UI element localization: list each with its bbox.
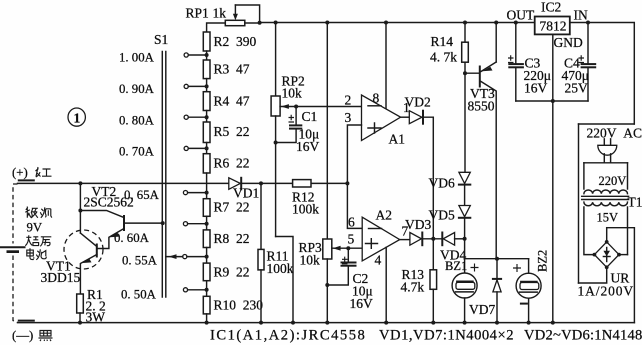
svg-text:BZ1: BZ1 [445,259,467,273]
wire VD5 to summing node and down to BZ1 [464,218,466,273]
wire A1 output pin1 [401,116,410,118]
transistor VT3 8550 [468,23,497,259]
svg-text:S1: S1 [154,32,168,47]
resistor R12 100k on main bus [292,180,319,217]
wire ladder R8-R9 [206,248,208,264]
svg-text:R3 47: R3 47 [214,62,250,77]
svg-text:8550: 8550 [468,99,495,114]
wire ladder R3-R4 [206,79,208,92]
wire R14 to VT3 base [465,72,480,74]
svg-text:3: 3 [345,110,352,125]
resistor R7 22 [203,199,249,217]
svg-text:VD1,VD7:1N4004×2: VD1,VD7:1N4004×2 [379,328,514,344]
transformer T1 [582,174,642,225]
wire IC2 GND pin down [552,34,554,101]
svg-text:GND: GND [554,35,583,50]
svg-text:4. 7k: 4. 7k [430,50,457,65]
svg-text:3DD15: 3DD15 [41,270,81,285]
S1 contact 0.80A [119,114,209,128]
diode VD5 (pointing down) [429,206,471,223]
node junction main bus / pin3 / pin6 [345,181,349,185]
capacitor C3 220u 16V [508,23,551,102]
wire secondary right down [627,207,629,255]
ground bus wire [18,322,635,324]
battery cell under test (dashed external leads) [1,184,25,322]
wire ladder R4-R5 [206,111,208,123]
svg-text:220V AC: 220V AC [587,126,642,141]
op-amp A2 [348,208,409,268]
resistor R13 4.7k [401,239,437,323]
svg-text:0. 90A: 0. 90A [119,82,155,96]
svg-text:1k: 1k [213,6,227,21]
resistor R8 22 [203,230,249,248]
svg-text:4.7k: 4.7k [401,280,425,295]
diode VD7 (pointing up) [469,259,501,323]
wire RP2 bottom jog to ground [276,237,293,323]
potentiometer RP3 10k [299,239,363,323]
svg-text:0. 80A: 0. 80A [119,114,155,128]
svg-text:10k: 10k [300,253,321,268]
resistor R4 47 [203,92,249,111]
svg-text:6: 6 [348,214,355,229]
capacitor C2 10u 16V [325,246,373,311]
resistor R1 2.2 3W [77,287,106,325]
svg-text:9V: 9V [27,221,43,235]
svg-text:VD2~VD6:1N4148×5: VD2~VD6:1N4148×5 [524,328,642,344]
wire mains primary feed [584,162,628,164]
S1 contact 0.50A [121,288,209,302]
svg-text:VD2: VD2 [405,95,431,110]
svg-text:BZ2: BZ2 [536,250,550,272]
node dot R11 tap on main bus [259,181,263,185]
svg-text:IC1(A1,A2):JRC4558: IC1(A1,A2):JRC4558 [210,328,366,344]
top +12V bus wire [260,22,535,24]
svg-text:R4 47: R4 47 [214,94,250,109]
S1 contact 0.60A [114,222,209,245]
resistor R2 390 [203,32,256,51]
svg-text:16V: 16V [350,296,374,311]
svg-text:RP1: RP1 [186,6,209,21]
wire ladder R6-R7 crossing main bus [206,173,208,199]
resistor R5 22 [203,122,249,143]
capacitor C1 10u 16V [274,105,320,155]
bei ce 9V ji ceng dian chi (battery under test) text column [25,207,52,260]
svg-text:5: 5 [348,231,355,246]
svg-text:0. 70A: 0. 70A [119,145,155,159]
node dots on top bus [258,21,262,25]
svg-text:8: 8 [373,91,380,106]
S1 contact 0.65A [124,188,209,202]
voltage regulator IC2 7812 [507,0,588,50]
buzzer + rail wire [465,258,529,260]
bridge rectifier UR [578,240,635,299]
label (+) red lead [12,166,28,180]
svg-text:2SC2562: 2SC2562 [84,195,134,210]
buzzer BZ2 [513,250,550,323]
wire GND junction down to ground bus [552,101,554,323]
svg-text:R9 22: R9 22 [214,265,250,280]
svg-text:15V: 15V [597,211,619,225]
svg-text:10k: 10k [282,86,303,101]
wire + bus down to VT1/VT2 [79,183,81,233]
main battery + bus wire [18,182,348,184]
wire A1 pin3 to main bus junction [347,125,361,183]
divider chain wire from top bus down to RP3 [326,23,328,240]
connector tick top lead [19,179,34,181]
wire A2 pin4 to ground bus [385,247,387,322]
svg-text:VD7: VD7 [469,302,495,317]
diode VD2 [405,95,431,124]
wire A1 pin8 from top bus [385,23,387,109]
connector tick bottom lead [19,320,34,322]
wire ladder R5-R6 [206,143,208,154]
svg-text:100k: 100k [267,261,294,276]
svg-text:A2: A2 [376,208,393,223]
potentiometer RP1 1k [186,5,260,32]
resistor R9 22 [203,263,249,281]
buzzer BZ1 [445,259,479,323]
S1 selected contact 0.55A with wiper arrow [122,254,209,268]
wire secondary left to bridge [584,207,595,255]
wire ladder R7-R8 [206,216,208,230]
svg-text:R6 22: R6 22 [214,156,250,171]
svg-text:T1: T1 [628,195,642,210]
svg-text:R8 22: R8 22 [214,231,250,246]
circled figure number 1 [68,108,85,126]
svg-text:(—): (—) [12,329,33,343]
svg-text:1A/200V: 1A/200V [578,284,635,299]
wire VD6/VD5 chain vertical [464,73,466,172]
svg-text:IN: IN [574,8,588,23]
svg-text:1: 1 [74,111,81,126]
svg-text:2: 2 [345,93,352,108]
svg-text:4: 4 [375,253,382,268]
svg-text:IC2: IC2 [541,0,561,15]
svg-text:VD1: VD1 [233,186,259,201]
potentiometer RP2 10k [271,23,361,237]
svg-text:(+): (+) [12,166,28,180]
svg-text:0. 55A: 0. 55A [122,254,158,268]
svg-text:0. 50A: 0. 50A [121,288,157,302]
resistor R6 22 [203,154,249,173]
svg-text:16V: 16V [296,139,320,154]
wire VD3 to summing node [422,238,442,240]
hei (black) character [39,331,53,342]
label (-) black lead [12,329,33,343]
wire VD6 to VD5 [464,185,466,206]
S1 contact 0.90A [119,82,209,96]
svg-text:R2 390: R2 390 [214,34,257,49]
svg-text:0. 60A: 0. 60A [114,231,150,245]
transistor VT1 3DD15 power transistor [41,230,104,294]
220V AC frame wire and label [579,123,635,125]
capacitor C4 470u 25V [562,23,596,102]
resistor R14 4.7k [430,23,468,74]
diode VD4 (pointing left) [440,233,466,263]
wire ladder R2-R3 [206,51,208,60]
wire A2 output pin7 [400,239,410,241]
svg-text:7812: 7812 [540,19,567,34]
resistor R11 100k [258,183,294,322]
wire ladder R9-R10 [206,281,208,297]
S1 contact 1.00A [119,51,209,65]
diode VD1 on main bus [229,178,259,201]
AC plug symbol [598,139,617,163]
S1 contact 0.70A [119,145,209,159]
svg-text:25V: 25V [565,81,589,96]
wire VD2 to summing node [423,117,433,239]
svg-text:16V: 16V [524,81,548,96]
wire capacitor ground link C3-GND-C4 [516,100,588,102]
svg-text:VD6: VD6 [429,176,455,191]
svg-text:1. 00A: 1. 00A [119,51,155,65]
svg-text:R7 22: R7 22 [214,200,250,215]
transistor VT2 2SC2562 [80,184,164,249]
hong (red) character [36,167,52,177]
component list caption [210,328,642,344]
svg-text:R5 22: R5 22 [214,124,250,139]
wire IC2 OUT right side to IN rail [570,23,635,125]
svg-text:100k: 100k [292,202,319,217]
svg-text:220V: 220V [599,174,627,188]
svg-text:VD5: VD5 [429,208,455,223]
wire bridge ac/dc links [607,228,635,323]
diode VD3 [405,217,431,245]
diode VD6 (pointing down) [429,172,471,190]
svg-text:C1: C1 [302,109,318,124]
op-amp A1 [345,91,410,147]
svg-text:OUT: OUT [507,8,535,23]
wire R10 to ground bus [206,314,208,323]
svg-text:R10 230: R10 230 [214,298,264,313]
wire junction down to A2 pin6 [347,183,362,228]
switch S1 slider bar [154,32,168,297]
resistor R3 47 [203,60,249,79]
resistor R10 230 [203,296,263,314]
svg-text:R14: R14 [431,34,454,49]
svg-text:A1: A1 [389,132,406,147]
